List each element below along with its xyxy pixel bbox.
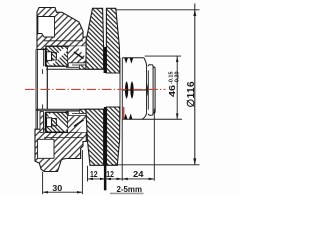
bore chamfer bottom <box>42 104 44 109</box>
phi116 bottom extension line <box>112 164 200 166</box>
dim 30 line <box>43 191 83 193</box>
svg-text:30: 30 <box>52 183 62 193</box>
spring coil sections top <box>124 58 133 64</box>
housing top block <box>37 8 86 50</box>
centerline <box>25 88 166 90</box>
disc left piece top <box>86 8 104 69</box>
disc slot filled top <box>104 47 107 73</box>
dim 12 line a <box>88 178 106 180</box>
end cap <box>147 65 156 115</box>
gap note underline <box>110 192 144 194</box>
shoulder chamfer bottom <box>142 113 147 119</box>
spring coil sections middle <box>123 81 148 98</box>
dim 24 extension x154.3 <box>153 109 155 181</box>
guide sleeve bottom line <box>122 118 182 120</box>
svg-text:∅116: ∅116 <box>186 81 197 108</box>
retainer wedge top <box>66 46 96 69</box>
phi116 top extension line <box>116 9 200 11</box>
clamp strip bottom <box>36 111 104 133</box>
dia46 dimension line <box>176 56 178 119</box>
disc right piece bottom <box>107 107 120 165</box>
svg-text:46: 46 <box>167 85 177 97</box>
spring coil sections bottom <box>124 114 133 120</box>
bearing lip lines top <box>43 48 45 66</box>
dim 12 line b <box>105 178 122 180</box>
disc right piece top <box>106 8 119 73</box>
svg-text:2-5mm: 2-5mm <box>117 184 143 194</box>
bore bottom line <box>36 108 104 110</box>
red wear mark <box>123 107 124 119</box>
flange edge lines <box>36 49 37 129</box>
phi116 dimension line <box>194 4 196 165</box>
housing bottom block <box>35 129 86 171</box>
dim 24 extension x122.2 <box>121 119 123 180</box>
dim 24 line <box>122 178 154 180</box>
svg-text:12: 12 <box>106 170 114 179</box>
dia46 label <box>167 71 181 97</box>
svg-text:24: 24 <box>133 169 144 179</box>
disc left piece bottom <box>86 109 104 165</box>
disc slot filled bottom / thick line <box>104 107 107 190</box>
dim 12/24 extension x87.5 <box>87 166 89 182</box>
retainer wedge bottom <box>66 109 96 132</box>
dia46 top extension line <box>145 55 181 57</box>
dim 30 extension right <box>81 150 83 194</box>
bearing bottom <box>46 112 68 132</box>
bore chamfer top <box>42 69 44 74</box>
svg-text:12: 12 <box>90 170 98 179</box>
bearing face ring <box>120 58 122 120</box>
bore top line <box>46 68 104 70</box>
shoulder chamfer top <box>144 58 147 67</box>
dim 30 extension left <box>42 172 44 194</box>
guide sleeve top line <box>122 57 144 59</box>
bearing top <box>46 46 68 66</box>
svg-text:-0.20: -0.20 <box>174 71 180 84</box>
guide sleeve edge <box>46 66 48 109</box>
